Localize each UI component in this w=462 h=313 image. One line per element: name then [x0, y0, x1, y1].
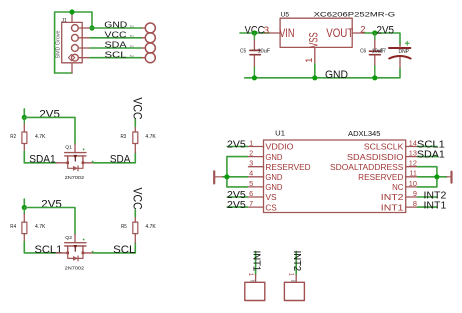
svg-text:INT1: INT1	[251, 251, 262, 272]
junction VCC c5	[252, 30, 257, 35]
regulator U5	[279, 11, 395, 47]
wire nc pin11	[418, 176, 447, 178]
svg-text:GND: GND	[265, 173, 282, 182]
svg-text:10: 10	[409, 179, 417, 188]
wire nc bracket right	[418, 167, 437, 187]
svg-text:2V5: 2V5	[39, 109, 60, 121]
svg-text:R4: R4	[10, 224, 16, 230]
wire SCL1 pin14	[418, 146, 438, 148]
transistor Q2	[57, 234, 94, 271]
pin 5 GND	[247, 179, 282, 192]
resistor R4	[10, 208, 46, 242]
svg-text:RESERVED: RESERVED	[358, 173, 403, 182]
wire GND	[90, 27, 142, 29]
svg-text:U1: U1	[275, 129, 285, 138]
svg-text:GND: GND	[104, 20, 127, 30]
capacitor C6	[360, 33, 386, 78]
svg-text:VOUT: VOUT	[326, 28, 353, 40]
pin 1 VDDIO	[247, 138, 293, 151]
svg-text:TH: TH	[130, 24, 134, 28]
pin 14 SCLSCLK	[364, 138, 418, 151]
pin 2 GND	[247, 149, 282, 162]
wire VSS to gnd	[314, 64, 316, 78]
svg-text:13: 13	[409, 149, 417, 158]
ground left bar	[214, 171, 222, 183]
svg-text:CS: CS	[265, 203, 277, 212]
resistor R2	[10, 117, 46, 151]
wire SCL1	[24, 241, 56, 253]
pad INT1	[245, 251, 265, 301]
svg-text:4.7K: 4.7K	[145, 134, 156, 140]
svg-text:2V5: 2V5	[377, 24, 395, 36]
svg-text:SDA: SDA	[105, 40, 127, 50]
svg-text:1: 1	[304, 58, 315, 63]
svg-text:1: 1	[288, 273, 294, 277]
svg-text:2N7002: 2N7002	[65, 265, 85, 271]
svg-text:VCC: VCC	[105, 30, 127, 40]
pin 2 VOUT stub	[352, 32, 365, 34]
junction GND pin	[89, 25, 94, 30]
svg-text:TH: TH	[130, 54, 134, 58]
connector J1	[56, 18, 90, 63]
svg-text:C5: C5	[240, 49, 246, 55]
svg-text:RESERVED: RESERVED	[265, 163, 310, 172]
wire SCL	[94, 243, 136, 253]
pin 10 NC	[392, 179, 417, 192]
IC U1 ADXL345	[264, 129, 406, 213]
ground right bar	[447, 172, 452, 183]
svg-text:NC: NC	[392, 183, 403, 192]
pin 12 SDOALTADDRESS	[330, 159, 418, 172]
pin 4 GND	[247, 169, 282, 182]
wire 2V5 to Q1 gate	[24, 117, 75, 144]
svg-text:5: 5	[249, 179, 253, 188]
resistor R3	[121, 127, 157, 153]
wire J1 gnd loop	[55, 12, 92, 73]
svg-text:Q2: Q2	[65, 235, 72, 241]
resistor R5	[121, 217, 156, 243]
svg-text:GND: GND	[265, 183, 282, 192]
pad TH3	[130, 43, 156, 53]
svg-text:4: 4	[249, 169, 253, 178]
pin 3 RESERVED	[249, 159, 311, 172]
pad INT2	[284, 251, 304, 301]
svg-text:2: 2	[360, 25, 365, 36]
wire gnd bracket left	[227, 157, 248, 187]
wire INT2 pin9	[418, 196, 438, 198]
svg-text:VDDIO: VDDIO	[265, 143, 293, 152]
wire VCC	[90, 37, 142, 39]
wire 2V5 pin1	[227, 146, 247, 148]
svg-text:VCC: VCC	[130, 97, 144, 119]
junction c5 gnd	[252, 75, 257, 80]
junction 2V5 scl	[22, 205, 27, 210]
svg-text:SCL1: SCL1	[35, 244, 63, 256]
svg-text:INT1: INT1	[381, 203, 404, 212]
wire 2V5 out	[365, 33, 400, 45]
svg-text:3: 3	[263, 25, 269, 36]
svg-text:1: 1	[249, 138, 253, 147]
svg-text:SMD Grove: SMD Grove	[56, 30, 62, 58]
wire SDA1 pin13	[418, 156, 438, 158]
svg-text:INT2: INT2	[291, 251, 302, 272]
wire SDA1	[24, 151, 56, 163]
svg-text:2: 2	[249, 149, 253, 158]
svg-text:SCL: SCL	[113, 244, 135, 256]
svg-text:9: 9	[413, 189, 417, 198]
svg-text:SCLSCLK: SCLSCLK	[364, 143, 404, 152]
svg-text:10uF: 10uF	[258, 49, 271, 55]
svg-text:XC6206P252MR-G: XC6206P252MR-G	[314, 12, 396, 19]
svg-text:6: 6	[249, 189, 253, 198]
wire J1 bottom pin stub	[71, 63, 73, 73]
junction gnd left	[224, 174, 229, 179]
pin 8 INT1	[381, 199, 418, 212]
svg-text:3: 3	[249, 159, 253, 168]
node VCC wire to VIN	[240, 32, 270, 34]
svg-text:14: 14	[409, 138, 417, 147]
svg-text:R3: R3	[121, 134, 127, 140]
pin 11 RESERVED	[358, 169, 417, 182]
svg-text:1: 1	[247, 273, 253, 277]
wire SCL	[90, 57, 142, 59]
wire J1 top pin stub	[71, 12, 73, 22]
svg-text:4.7K: 4.7K	[35, 224, 46, 230]
svg-text:SDASDISDIO: SDASDISDIO	[347, 153, 404, 162]
wire SDA	[94, 153, 136, 163]
svg-text:GND: GND	[325, 69, 348, 81]
svg-text:2V5: 2V5	[227, 200, 246, 211]
capacitor C7 DNP	[389, 41, 411, 68]
svg-text:TH: TH	[130, 34, 134, 38]
svg-text:4.7K: 4.7K	[35, 134, 46, 140]
wire 2V5 pin6	[227, 196, 247, 198]
pin 1 VSS stub	[314, 47, 316, 63]
node VCC sda	[134, 120, 136, 127]
svg-text:2N7002: 2N7002	[65, 175, 85, 181]
node VCC scl	[134, 210, 136, 217]
node 2V5 sda stub	[23, 109, 25, 118]
svg-text:8: 8	[413, 199, 417, 208]
wire J1 bottom	[55, 72, 72, 74]
svg-text:VCC: VCC	[130, 188, 144, 210]
wire gnd pin4	[223, 176, 248, 178]
svg-text:4.7K: 4.7K	[145, 224, 156, 230]
wire SDA	[90, 47, 142, 49]
node 2V5 scl stub	[23, 199, 25, 208]
pad TH4	[130, 53, 156, 63]
transistor Q1	[57, 144, 94, 181]
svg-text:TH: TH	[130, 44, 134, 48]
wire INT1 pin8	[418, 206, 438, 208]
wire 2V5 to Q2 gate	[24, 208, 75, 235]
junction 2V5 sda	[22, 115, 27, 120]
svg-text:11: 11	[409, 169, 417, 178]
junction vss gnd	[312, 75, 317, 80]
wire GND bottom	[245, 69, 400, 78]
svg-text:SDOALTADDRESS: SDOALTADDRESS	[330, 163, 404, 172]
pin 7 CS	[247, 199, 277, 212]
svg-text:VSS: VSS	[309, 32, 321, 48]
junction 2V5	[372, 30, 377, 35]
svg-text:VS: VS	[265, 193, 277, 202]
svg-text:DNP: DNP	[399, 49, 410, 55]
pad TH2	[130, 33, 156, 43]
svg-text:SDA: SDA	[110, 154, 131, 166]
svg-text:SDA1: SDA1	[417, 150, 445, 161]
pin 9 INT2	[381, 189, 418, 202]
pad TH1	[130, 23, 156, 33]
svg-text:2V5: 2V5	[41, 199, 62, 211]
svg-text:R5: R5	[121, 224, 127, 230]
svg-text:R2: R2	[10, 134, 16, 140]
svg-text:ADXL345: ADXL345	[348, 131, 381, 138]
wire 2V5 pin7	[227, 206, 247, 208]
svg-text:INT1: INT1	[424, 200, 447, 211]
pin 3 VIN stub	[270, 32, 281, 34]
svg-text:2V5: 2V5	[227, 139, 246, 150]
junction c6 gnd	[372, 75, 377, 80]
svg-text:VIN: VIN	[279, 28, 294, 40]
junction nc right	[434, 174, 439, 179]
capacitor C5	[240, 33, 270, 78]
svg-text:J1: J1	[62, 18, 68, 24]
pin 13 SDASDISDIO	[347, 149, 418, 162]
pin 6 VS	[247, 189, 277, 202]
svg-text:C6: C6	[360, 49, 366, 55]
svg-text:7: 7	[249, 199, 253, 208]
svg-text:SCL: SCL	[105, 49, 127, 59]
svg-text:GND: GND	[265, 153, 282, 162]
junction top	[69, 9, 74, 14]
svg-text:Q1: Q1	[65, 145, 72, 151]
svg-text:INT2: INT2	[381, 193, 404, 202]
svg-text:U5: U5	[281, 11, 290, 18]
svg-text:SDA1: SDA1	[29, 154, 56, 166]
svg-text:12: 12	[409, 159, 417, 168]
svg-text:C7: C7	[380, 49, 387, 55]
